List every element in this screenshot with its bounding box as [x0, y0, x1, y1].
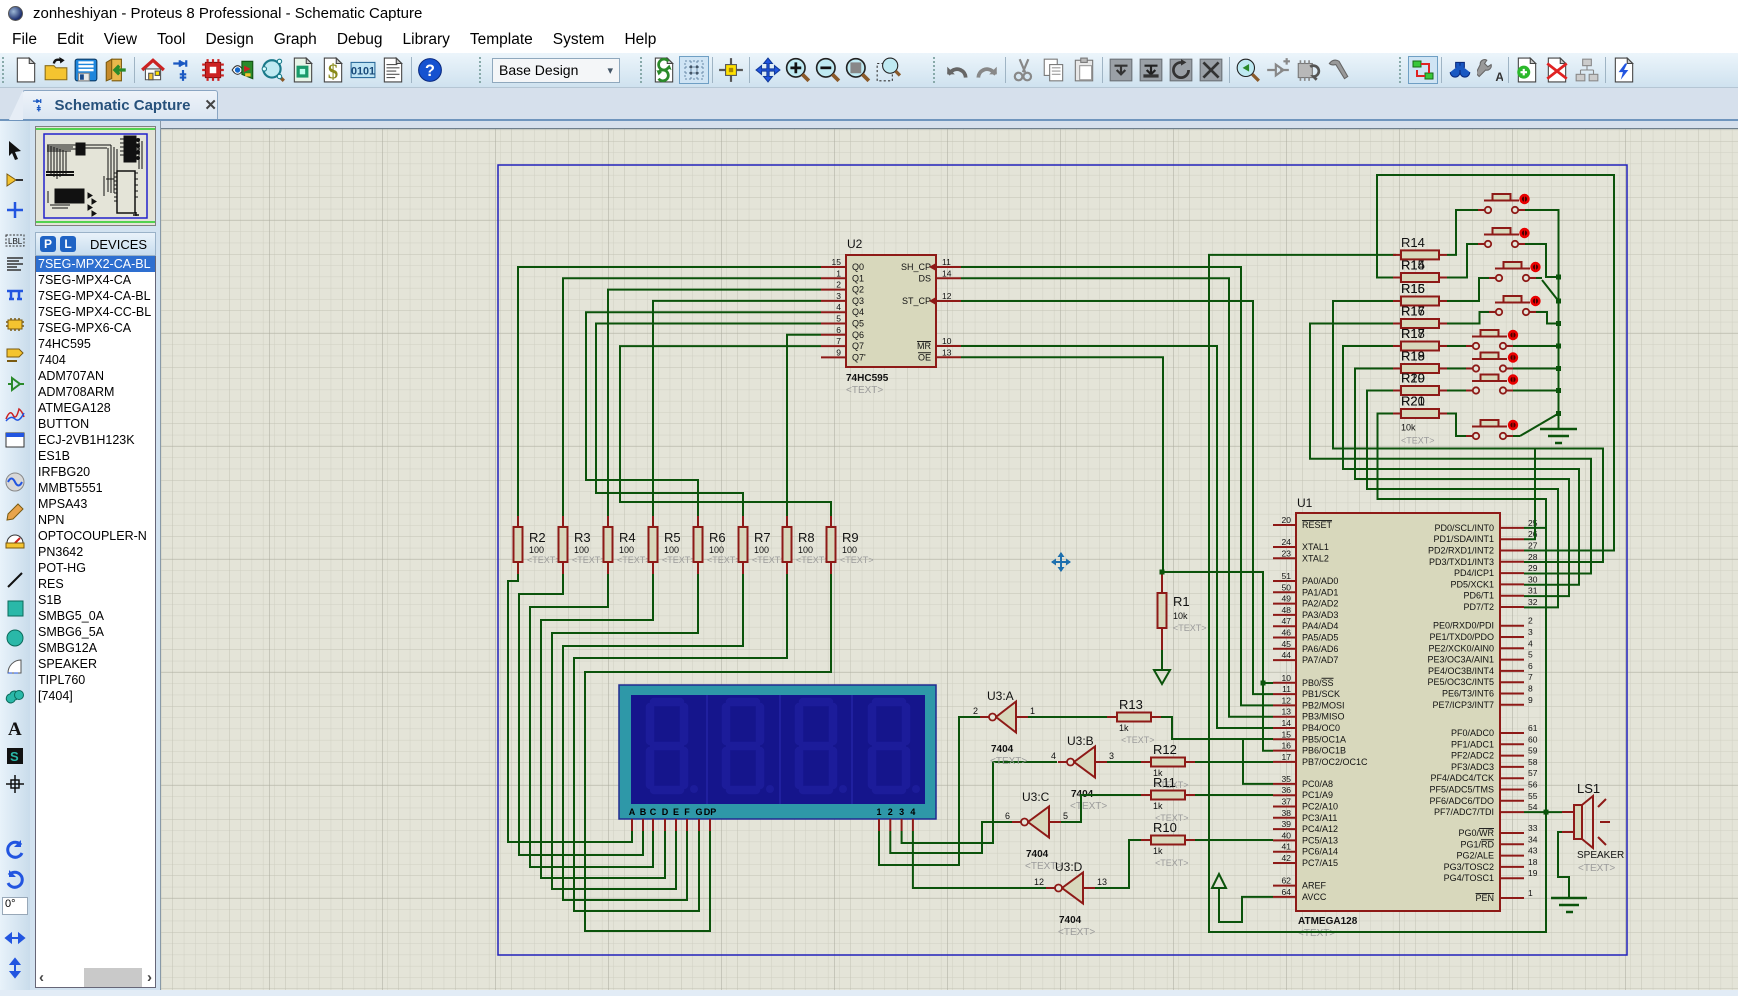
svg-text:R7: R7	[754, 530, 771, 545]
svg-text:R2: R2	[529, 530, 546, 545]
ground arrow below R1	[1154, 670, 1170, 684]
wire U2.Q0 to R2	[518, 267, 821, 516]
svg-text:<TEXT>: <TEXT>	[527, 555, 561, 565]
wire R19 to button6	[1447, 368, 1466, 370]
svg-text:<TEXT>: <TEXT>	[662, 555, 696, 565]
svg-text:2: 2	[1528, 616, 1533, 626]
svg-text:7404: 7404	[1026, 849, 1049, 860]
svg-text:PD4/ICP1: PD4/ICP1	[1454, 568, 1494, 578]
svg-text:58: 58	[1528, 757, 1538, 767]
svg-text:R18: R18	[1401, 349, 1425, 364]
svg-text:AREF: AREF	[1302, 881, 1327, 891]
svg-text:PA5/AD5: PA5/AD5	[1302, 633, 1338, 643]
svg-text:LBL: LBL	[8, 237, 23, 246]
wire R21 to PD0 net	[1378, 414, 1547, 528]
svg-text:R4: R4	[619, 530, 636, 545]
svg-text:A: A	[629, 807, 636, 817]
svg-text:<TEXT>: <TEXT>	[1070, 801, 1107, 812]
svg-text:74HC595: 74HC595	[846, 373, 889, 384]
svg-text:Q4: Q4	[852, 307, 864, 317]
node bus junction	[1556, 299, 1561, 304]
svg-text:U3:D: U3:D	[1055, 860, 1083, 874]
resistor R15 10k	[1393, 258, 1447, 283]
svg-text:R12: R12	[1153, 742, 1177, 757]
resistor R12 1k	[1141, 742, 1195, 790]
svg-text:13: 13	[1282, 707, 1292, 717]
svg-text:7: 7	[836, 336, 841, 346]
svg-text:XTAL2: XTAL2	[1302, 553, 1329, 563]
wire U2.Q6 to R8	[787, 335, 821, 516]
node bus junction	[1556, 344, 1561, 349]
wire ground bus	[1558, 277, 1560, 414]
wire R17 to U1.PD4	[1310, 324, 1591, 574]
svg-text:51: 51	[1282, 571, 1292, 581]
wire button1 to ground bus	[1525, 210, 1559, 277]
wire R20 to button7	[1447, 390, 1466, 392]
wire U2.Q7 to R9	[620, 346, 831, 516]
svg-text:PF6/ADC6/TDO: PF6/ADC6/TDO	[1429, 796, 1494, 806]
inverter U3:B 7404	[1051, 734, 1114, 812]
svg-text:PB1/SCK: PB1/SCK	[1302, 689, 1340, 699]
inverter U3:C 7404	[1005, 790, 1068, 872]
svg-text:PF4/ADC4/TCK: PF4/ADC4/TCK	[1430, 773, 1494, 783]
svg-text:PE4/OC3B/INT4: PE4/OC3B/INT4	[1428, 666, 1494, 676]
svg-text:3: 3	[836, 291, 841, 301]
svg-text:3: 3	[1109, 751, 1114, 761]
node R1 top junction	[1160, 570, 1165, 575]
svg-text:PC3/A11: PC3/A11	[1302, 813, 1337, 823]
wire U3:A.1 to R13	[1028, 716, 1107, 718]
wire U2.Q1 to R3	[563, 278, 821, 516]
svg-text:R19: R19	[1401, 371, 1425, 386]
svg-text:PE7/ICP3/INT7: PE7/ICP3/INT7	[1432, 700, 1494, 710]
resistor R6	[694, 516, 741, 574]
svg-text:R9: R9	[842, 530, 859, 545]
svg-text:18: 18	[1528, 857, 1538, 867]
svg-text:PD5/XCK1: PD5/XCK1	[1450, 579, 1494, 589]
svg-text:PF5/ADC5/TMS: PF5/ADC5/TMS	[1429, 785, 1494, 795]
resistor R10 1k	[1141, 820, 1195, 868]
svg-text:PB0/SS: PB0/SS	[1302, 678, 1334, 688]
svg-text:7404: 7404	[991, 744, 1014, 755]
svg-text:R1: R1	[1173, 594, 1190, 609]
svg-text:PF0/ADC0: PF0/ADC0	[1451, 728, 1494, 738]
svg-text:<TEXT>: <TEXT>	[846, 385, 883, 396]
svg-text:Q3: Q3	[852, 296, 864, 306]
svg-text:<TEXT>: <TEXT>	[752, 555, 786, 565]
svg-text:F: F	[684, 807, 690, 817]
wire R7 to display segment pin	[563, 574, 743, 900]
svg-text:SH_CP: SH_CP	[901, 262, 931, 272]
svg-text:37: 37	[1282, 797, 1292, 807]
svg-text:49: 49	[1282, 594, 1292, 604]
wire display pin3 to U3:B output	[902, 762, 1057, 843]
svg-text:5: 5	[836, 314, 841, 324]
svg-text:11: 11	[942, 257, 951, 267]
svg-text:32: 32	[1528, 597, 1538, 607]
wire R11 to U1.PC1	[1195, 794, 1273, 796]
wire R1 node to U1.PB0	[1162, 572, 1273, 683]
svg-text:R14: R14	[1401, 235, 1425, 250]
svg-text:PC5/A13: PC5/A13	[1302, 835, 1338, 845]
svg-text:1: 1	[836, 268, 841, 278]
svg-text:Q2: Q2	[852, 285, 864, 295]
svg-text:11: 11	[1282, 684, 1291, 694]
wire button2 to ground bus	[1525, 244, 1559, 277]
svg-text:PC6/A14: PC6/A14	[1302, 847, 1338, 857]
svg-text:PB3/MISO: PB3/MISO	[1302, 712, 1345, 722]
svg-text:50: 50	[1282, 582, 1292, 592]
wire display pin2 to U3:C output	[890, 822, 1012, 853]
svg-text:PE1/TXD0/PDO: PE1/TXD0/PDO	[1429, 632, 1494, 642]
svg-text:7404: 7404	[1059, 915, 1082, 926]
wire U1.PD1 riser	[1524, 449, 1535, 540]
wire R21 to button8	[1447, 414, 1466, 437]
svg-text:13: 13	[1097, 877, 1107, 887]
svg-text:U3:C: U3:C	[1022, 790, 1050, 804]
svg-text:S: S	[10, 749, 19, 764]
node PB0 junction	[1261, 681, 1266, 686]
resistor R2	[514, 516, 561, 574]
wire button3 diagonal to bus	[1536, 277, 1542, 279]
svg-text:10k: 10k	[1173, 611, 1188, 621]
svg-text:44: 44	[1282, 650, 1292, 660]
svg-text:62: 62	[1282, 876, 1292, 886]
wire U2.Q2 to R4	[608, 290, 821, 516]
svg-text:R3: R3	[574, 530, 591, 545]
svg-text:PG2/ALE: PG2/ALE	[1456, 851, 1494, 861]
7-segment display LCD1 7SEG-MPX4	[619, 685, 936, 831]
svg-text:<TEXT>: <TEXT>	[990, 756, 1027, 767]
svg-text:PC4/A12: PC4/A12	[1302, 824, 1338, 834]
svg-text:R8: R8	[798, 530, 815, 545]
svg-text:15: 15	[1282, 729, 1292, 739]
button SW4 push button	[1489, 296, 1541, 315]
svg-text:PB2/MOSI: PB2/MOSI	[1302, 700, 1345, 710]
svg-text:14: 14	[942, 268, 952, 278]
wire R19 to U1.PD6	[1355, 369, 1569, 597]
wire U2.Q5 to R7	[596, 324, 821, 517]
node cursor crosshair	[1052, 553, 1070, 571]
svg-text:<TEXT>: <TEXT>	[1298, 928, 1335, 939]
svg-text:R15: R15	[1401, 281, 1425, 296]
svg-text:PE2/XCK0/AIN0: PE2/XCK0/AIN0	[1428, 643, 1494, 653]
svg-text:47: 47	[1282, 616, 1292, 626]
resistor R11 1k	[1141, 775, 1195, 823]
inverter U3:D 7404	[1034, 860, 1107, 938]
svg-text:PG0/WR: PG0/WR	[1458, 828, 1494, 838]
svg-text:3: 3	[899, 807, 904, 817]
svg-text:100: 100	[709, 545, 724, 555]
svg-text:PD2/RXD1/INT2: PD2/RXD1/INT2	[1428, 546, 1494, 556]
node bus junction	[1556, 275, 1561, 280]
svg-text:PD3/TXD1/INT3: PD3/TXD1/INT3	[1429, 557, 1494, 567]
wire R10 to U1.PC5	[1195, 839, 1273, 841]
wire U3:C.5 to R11	[1061, 795, 1141, 822]
svg-text:2: 2	[836, 280, 841, 290]
svg-text:39: 39	[1282, 819, 1292, 829]
svg-text:PG1/RD: PG1/RD	[1460, 839, 1494, 849]
svg-text:R10: R10	[1153, 820, 1177, 835]
wire R14 to button1	[1447, 210, 1478, 255]
svg-text:PA7/AD7: PA7/AD7	[1302, 655, 1338, 665]
node bus junction	[1556, 411, 1561, 416]
wire U2.Q3 to R5	[653, 301, 821, 516]
svg-text:6: 6	[1528, 661, 1533, 671]
svg-text:PA4/AD4: PA4/AD4	[1302, 621, 1338, 631]
wire U2.Q4 to R6	[586, 312, 821, 516]
svg-text:PE5/OC3C/INT5: PE5/OC3C/INT5	[1427, 677, 1494, 687]
svg-text:<TEXT>: <TEXT>	[840, 555, 874, 565]
svg-text:8: 8	[1528, 684, 1533, 694]
wire R9 to display segment pin	[585, 574, 831, 931]
svg-text:33: 33	[1528, 823, 1538, 833]
svg-text:7: 7	[1528, 672, 1533, 682]
svg-text:LS1: LS1	[1577, 781, 1600, 796]
wire button4 to bus	[1536, 312, 1559, 324]
svg-text:4: 4	[1528, 638, 1533, 648]
svg-text:DP: DP	[704, 807, 717, 817]
svg-text:3: 3	[1528, 627, 1533, 637]
svg-text:9: 9	[1528, 695, 1533, 705]
wire R15 to button2	[1447, 244, 1478, 278]
svg-text:<TEXT>: <TEXT>	[1058, 927, 1095, 938]
button SW8 push button	[1466, 420, 1518, 439]
resistor R19 10k	[1393, 349, 1447, 374]
svg-text:E: E	[673, 807, 679, 817]
svg-text:PC1/A9: PC1/A9	[1302, 790, 1333, 800]
button SW3 push button	[1489, 262, 1541, 281]
svg-text:<TEXT>: <TEXT>	[796, 555, 830, 565]
resistor R14 10k	[1393, 235, 1447, 260]
svg-text:59: 59	[1528, 746, 1538, 756]
wire to U1.PB6	[1263, 683, 1273, 751]
wire U3:D.13 to R10	[1095, 840, 1141, 888]
svg-text:1k: 1k	[1153, 846, 1163, 856]
svg-text:27: 27	[1528, 541, 1538, 551]
sheet border	[498, 165, 1627, 955]
wire R3 to display segment pin	[519, 574, 643, 855]
svg-text:DS: DS	[918, 273, 931, 283]
wire R20 to U1.PD7	[1367, 391, 1558, 608]
svg-text:56: 56	[1528, 780, 1538, 790]
svg-text:ATMEGA128: ATMEGA128	[1298, 916, 1358, 927]
resistor R18 10k	[1393, 326, 1447, 351]
svg-text:PC7/A15: PC7/A15	[1302, 858, 1338, 868]
wire button6 to bus	[1513, 368, 1559, 370]
svg-text:100: 100	[664, 545, 679, 555]
svg-text:1: 1	[1528, 888, 1533, 898]
power arrow VCC to AVCC	[1212, 874, 1226, 888]
resistor R13 1k	[1107, 697, 1161, 745]
svg-text:100: 100	[842, 545, 857, 555]
wire R15 frame to U1.PD2	[1377, 175, 1614, 551]
wire U1.PF7 to speaker	[1524, 811, 1562, 813]
wire R1 to ground arrow	[1161, 650, 1163, 669]
svg-text:Q7: Q7	[852, 341, 864, 351]
svg-text:PF7/ADC7/TDI: PF7/ADC7/TDI	[1434, 807, 1494, 817]
svg-text:PE3/OC3A/AIN1: PE3/OC3A/AIN1	[1427, 655, 1494, 665]
svg-text:R17: R17	[1401, 326, 1425, 341]
svg-text:100: 100	[529, 545, 544, 555]
svg-text:10: 10	[1282, 673, 1292, 683]
svg-text:4: 4	[910, 807, 915, 817]
wire U2.SH_CP to U1.PB2	[961, 267, 1273, 705]
svg-text:23: 23	[1282, 548, 1292, 558]
svg-text:PA6/AD6: PA6/AD6	[1302, 644, 1338, 654]
resistor R17 10k	[1393, 304, 1447, 329]
wire U3:B.3 to R12	[1107, 761, 1141, 763]
svg-text:PD6/T1: PD6/T1	[1463, 591, 1494, 601]
svg-text:Q6: Q6	[852, 330, 864, 340]
svg-text:2: 2	[973, 706, 978, 716]
svg-text:ST_CP: ST_CP	[902, 296, 931, 306]
svg-text:25: 25	[1528, 518, 1538, 528]
wire display pin1 to U3:A output	[879, 717, 980, 865]
svg-text:48: 48	[1282, 605, 1292, 615]
node bus junction	[1556, 321, 1561, 326]
svg-text:$: $	[328, 62, 338, 83]
IC U1 ATMEGA128 microcontroller	[1273, 496, 1538, 939]
svg-text:PD0/SCL/INT0: PD0/SCL/INT0	[1434, 523, 1494, 533]
svg-text:13: 13	[942, 347, 952, 357]
svg-text:4: 4	[1051, 751, 1056, 761]
svg-text:30: 30	[1528, 574, 1538, 584]
svg-text:PC0/A8: PC0/A8	[1302, 779, 1333, 789]
svg-text:100: 100	[574, 545, 589, 555]
svg-text:100: 100	[798, 545, 813, 555]
svg-text:R16: R16	[1401, 304, 1425, 319]
svg-text:R13: R13	[1119, 697, 1143, 712]
wire display pin4 to U3:D output	[913, 831, 1049, 888]
svg-text:1: 1	[1030, 706, 1035, 716]
resistor R3	[559, 516, 606, 574]
wire R18 to button5	[1447, 345, 1466, 347]
svg-text:PB4/OC0: PB4/OC0	[1302, 723, 1340, 733]
wire R16 to button3	[1447, 278, 1489, 301]
svg-text:<TEXT>: <TEXT>	[572, 555, 606, 565]
svg-text:U3:A: U3:A	[987, 689, 1014, 703]
svg-text:PG4/TOSC1: PG4/TOSC1	[1444, 873, 1494, 883]
svg-text:R20: R20	[1401, 394, 1425, 409]
svg-text:41: 41	[1282, 842, 1292, 852]
svg-text:12: 12	[1282, 695, 1292, 705]
wire R17 to button4	[1447, 312, 1489, 324]
svg-text:PE6/T3/INT6: PE6/T3/INT6	[1442, 689, 1494, 699]
wire R16 to U1.PD3	[1333, 301, 1603, 562]
node bus junction	[1556, 388, 1561, 393]
svg-text:<TEXT>: <TEXT>	[1578, 863, 1615, 874]
svg-text:20: 20	[1282, 515, 1292, 525]
svg-text:R11: R11	[1153, 775, 1176, 790]
wire U2.DS to U1.PB3	[961, 278, 1273, 716]
svg-text:PE0/RXD0/PDI: PE0/RXD0/PDI	[1433, 621, 1494, 631]
wire button8 diagonal to bus	[1513, 435, 1520, 437]
svg-text:1: 1	[876, 807, 881, 817]
ground symbol speaker	[1551, 898, 1587, 912]
svg-text:26: 26	[1528, 529, 1538, 539]
svg-text:D: D	[662, 807, 669, 817]
svg-text:38: 38	[1282, 808, 1292, 818]
resistor R16 10k	[1393, 281, 1447, 306]
resistor R4	[604, 516, 651, 574]
svg-text:<TEXT>: <TEXT>	[707, 555, 741, 565]
svg-text:PA0/AD0: PA0/AD0	[1302, 576, 1338, 586]
svg-text:R14: R14	[1401, 258, 1425, 273]
svg-text:12: 12	[1034, 877, 1044, 887]
svg-text:PC2/A10: PC2/A10	[1302, 802, 1338, 812]
svg-text:19: 19	[1528, 868, 1538, 878]
resistor R21 10k	[1393, 394, 1447, 446]
svg-text:28: 28	[1528, 552, 1538, 562]
wire R5 to display segment pin	[541, 574, 665, 878]
svg-text:10k: 10k	[1401, 423, 1416, 433]
svg-text:57: 57	[1528, 768, 1538, 778]
svg-text:<TEXT>: <TEXT>	[1121, 735, 1155, 745]
resistor R20 10k	[1393, 371, 1447, 396]
svg-text:PA2/AD2: PA2/AD2	[1302, 599, 1338, 609]
resistor R7	[739, 516, 786, 574]
svg-text:40: 40	[1282, 830, 1292, 840]
svg-text:PB5/OC1A: PB5/OC1A	[1302, 734, 1346, 744]
svg-text:PEN: PEN	[1475, 893, 1494, 903]
svg-text:R6: R6	[709, 530, 726, 545]
svg-text:45: 45	[1282, 639, 1292, 649]
svg-text:A: A	[8, 719, 22, 739]
svg-text:<TEXT>: <TEXT>	[1155, 858, 1189, 868]
speaker LS1	[1562, 781, 1624, 874]
svg-text:SPEAKER: SPEAKER	[1577, 850, 1624, 861]
node bus junction	[1556, 366, 1561, 371]
resistor R8	[783, 516, 830, 574]
button SW7 push button	[1466, 374, 1518, 393]
svg-text:RESET: RESET	[1302, 520, 1333, 530]
svg-text:MR: MR	[917, 341, 931, 351]
svg-text:1k: 1k	[1119, 723, 1129, 733]
svg-text:64: 64	[1282, 887, 1292, 897]
wire U2.OE to R1	[961, 357, 1163, 572]
svg-text:PA1/AD1: PA1/AD1	[1302, 587, 1338, 597]
wire button7 to bus	[1513, 390, 1559, 392]
svg-text:46: 46	[1282, 628, 1292, 638]
svg-text:U1: U1	[1297, 496, 1313, 510]
svg-text:34: 34	[1528, 834, 1538, 844]
svg-text:<TEXT>: <TEXT>	[1173, 623, 1207, 633]
svg-text:PF1/ADC1: PF1/ADC1	[1451, 739, 1494, 749]
svg-text:U3:B: U3:B	[1067, 734, 1094, 748]
svg-text:PF2/ADC2: PF2/ADC2	[1451, 751, 1494, 761]
button SW2 push button	[1478, 228, 1530, 247]
resistor R5	[649, 516, 696, 574]
svg-text:16: 16	[1282, 741, 1292, 751]
svg-text:PB7/OC2/OC1C: PB7/OC2/OC1C	[1302, 757, 1368, 767]
svg-text:Q5: Q5	[852, 319, 864, 329]
button SW6 push button	[1466, 352, 1518, 371]
wire speaker to ground	[1558, 832, 1569, 898]
svg-text:17: 17	[1282, 752, 1292, 762]
svg-text:1k: 1k	[1153, 801, 1163, 811]
svg-text:A: A	[1495, 70, 1503, 83]
svg-text:4: 4	[836, 302, 841, 312]
svg-text:100: 100	[754, 545, 769, 555]
svg-text:R5: R5	[664, 530, 681, 545]
svg-text:PA3/AD3: PA3/AD3	[1302, 610, 1338, 620]
button SW5 push button	[1466, 330, 1518, 349]
ground symbol keypad	[1540, 414, 1577, 444]
resistor R9	[827, 516, 874, 574]
svg-text:Q0: Q0	[852, 262, 864, 272]
resistor R1 10k	[1158, 572, 1207, 650]
